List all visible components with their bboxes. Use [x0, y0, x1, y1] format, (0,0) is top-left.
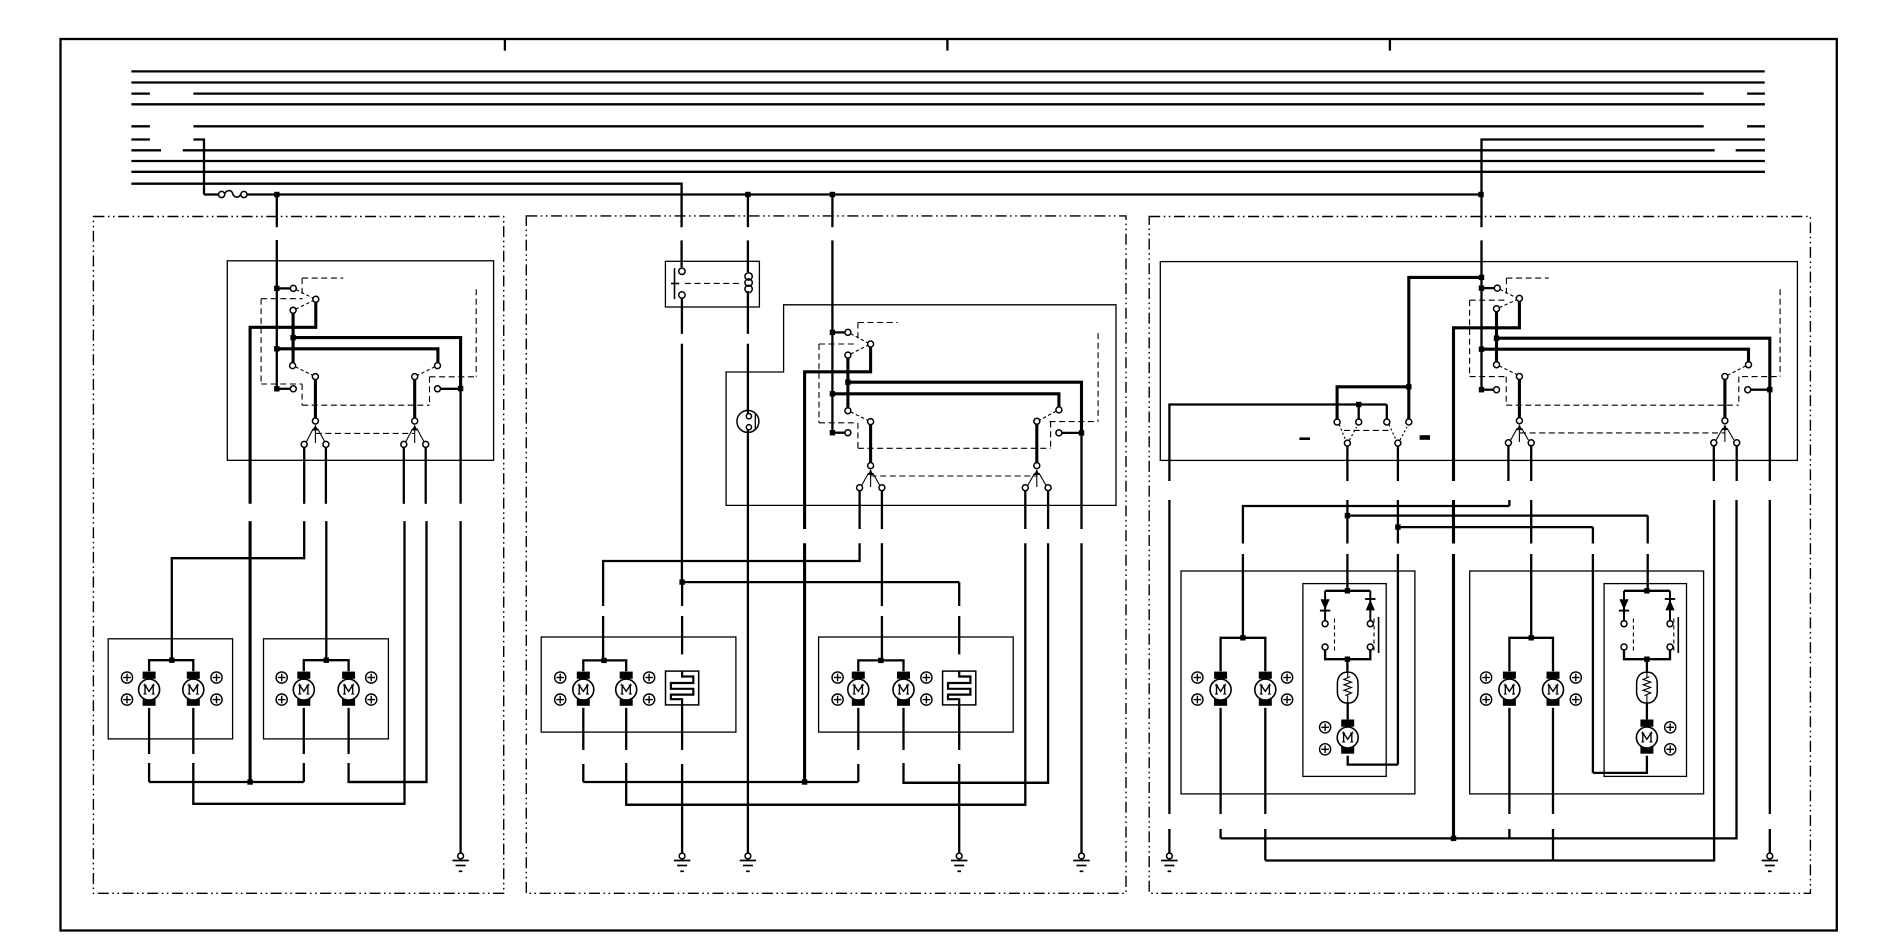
plus terminal — [1570, 672, 1581, 683]
diode1 connector dash b — [1373, 619, 1375, 652]
wire lock feed A4 — [1407, 389, 1410, 419]
contact C3r — [1494, 306, 1500, 312]
motor M7 — [1337, 720, 1358, 754]
wire M4a tail — [857, 764, 859, 782]
wire CB1 tail — [681, 764, 683, 853]
wire bus y126 — [1747, 125, 1765, 127]
lock arm A3-A6 — [1389, 425, 1396, 441]
wire right ground leg mid — [1769, 500, 1771, 814]
wire C15r out — [1736, 446, 1738, 481]
wire mid bottom link A — [583, 781, 858, 783]
contact C2 — [313, 296, 319, 302]
wire bus y183 to relay — [131, 184, 681, 228]
contact C11m — [1034, 463, 1040, 469]
wire H3 right leg 2 — [1592, 554, 1594, 773]
node L-ground-leg — [458, 386, 463, 391]
motor M6a — [1499, 672, 1520, 706]
wire bus y150 — [131, 149, 161, 151]
contact C6 — [290, 386, 296, 392]
wire relay coil feed — [747, 195, 749, 228]
node mid motor2 feed — [878, 658, 883, 663]
arrow mid left rocker — [868, 469, 873, 487]
arm C13m side — [873, 473, 880, 485]
wire C15 out lower — [349, 521, 427, 782]
wire left main feed — [276, 195, 278, 228]
wire relay contact out 2 — [681, 344, 683, 582]
switch arm C1m-C2m — [851, 334, 868, 343]
wire C14r out 2 — [1265, 500, 1714, 861]
lock dashed link — [1344, 429, 1389, 431]
plus terminal — [1481, 694, 1492, 705]
node L-main-1 — [274, 286, 279, 291]
plus terminal — [276, 672, 287, 683]
circuit breaker CB1 — [666, 671, 699, 705]
arrow right rocker — [412, 425, 417, 444]
node M-main-3 — [830, 430, 835, 435]
right doors dash-dot box — [1149, 217, 1810, 894]
wire bus y126 — [131, 125, 150, 127]
switch arm C1r-C2r — [1500, 289, 1517, 298]
wire C2m elbow long — [805, 347, 871, 529]
wire diode1 top — [1325, 590, 1370, 592]
plus terminal — [1320, 744, 1331, 755]
buzzer B1 — [737, 410, 759, 432]
arm C13r side — [1522, 428, 1529, 440]
wire buzzer to ground — [747, 432, 749, 853]
node feed-midswitch — [830, 192, 835, 197]
contact C3m — [845, 352, 851, 358]
wire H3 right leg — [1592, 527, 1594, 543]
wire mid ground leg lower — [1080, 543, 1082, 853]
plus terminal — [1282, 672, 1293, 683]
wire resistor1 feed2 — [681, 616, 683, 654]
middle doors dash-dot box — [526, 216, 1126, 893]
wire bus y171 — [131, 171, 1765, 173]
contact C10r — [1516, 418, 1522, 424]
circuit breaker CB2 — [943, 671, 976, 705]
wire motor2 Y — [304, 660, 349, 671]
wire C13 out lower — [325, 521, 327, 658]
contact C6m — [845, 430, 851, 436]
wire C12r out — [1507, 446, 1509, 481]
node M-main-1 — [830, 330, 835, 335]
motor M4b — [893, 672, 914, 706]
plus terminal — [921, 694, 932, 705]
switch arm C1-C2 — [296, 290, 313, 299]
left switch dashed outline — [261, 278, 476, 433]
switch arm C4r-C5r — [1499, 366, 1517, 375]
wire stub C9m — [1062, 432, 1082, 434]
left motor unit 1 box — [108, 639, 232, 739]
plus terminal — [121, 672, 132, 683]
wire A3 stub — [1386, 405, 1388, 420]
arm C14 side — [406, 429, 413, 442]
wire relay coil feed 2 — [747, 240, 749, 266]
motor M2b — [338, 672, 359, 706]
wire M2a tail — [303, 763, 305, 782]
node resistor branch — [679, 579, 684, 584]
lock arm A5 tip — [1350, 427, 1357, 440]
wire M4b down — [902, 708, 904, 750]
contact C4r — [1494, 362, 1500, 368]
wire mid bottom link C — [626, 804, 1025, 806]
wire C8m-C11m — [1035, 424, 1038, 462]
wire diode2 bottom — [1624, 650, 1670, 659]
node diode1 bottom — [1345, 657, 1350, 662]
wire C12m out tail — [602, 616, 604, 658]
wire r-motor2 Y — [1509, 638, 1553, 672]
node mid bottom A — [802, 779, 807, 784]
motor M2a — [293, 672, 314, 706]
contact C6r — [1494, 387, 1500, 393]
wire horiz to C7m — [832, 394, 1059, 407]
wire stub C9r — [1751, 389, 1770, 391]
plus terminal — [832, 694, 843, 705]
diode2 connector dash b — [1673, 619, 1675, 652]
plus terminal — [1282, 694, 1293, 705]
wire H1 — [1243, 506, 1510, 544]
wire C13r out 2 — [1530, 500, 1532, 544]
node R-main-2 — [1479, 347, 1484, 352]
motor M3b — [616, 672, 637, 706]
node L-main-3 — [274, 386, 279, 391]
wire horiz to mid ground leg — [848, 382, 1082, 433]
wire CB1 to ground — [681, 705, 683, 750]
wire M8 tail — [1593, 756, 1647, 773]
wire bus y82 — [131, 81, 1764, 83]
wire C13m out lower — [881, 543, 883, 606]
wire C5m-C10m — [869, 425, 872, 463]
contact C14r — [1711, 440, 1717, 446]
wire C15r out 2 — [1221, 500, 1737, 838]
contact C7 — [435, 363, 441, 369]
contact C12m — [857, 485, 863, 491]
wire bus y93 — [131, 92, 150, 94]
wire middle main vertical — [831, 240, 833, 432]
wire bus y93 — [193, 92, 1703, 94]
wire thermistor1 to M — [1347, 703, 1349, 719]
node L-main-2 — [274, 346, 279, 351]
node L-horiz1 — [290, 335, 295, 340]
wire M2a down — [303, 708, 305, 754]
contact C12 — [301, 441, 307, 447]
contact C9r — [1745, 387, 1751, 393]
plus terminal — [1570, 694, 1581, 705]
wire bottom link B — [349, 781, 427, 783]
diode unit1 top node — [1345, 588, 1350, 593]
middle switch dashed outline — [819, 323, 1098, 477]
contact C7m — [1056, 407, 1062, 413]
middle motor unit 2 box — [819, 637, 1014, 732]
node feed-relaycoil — [745, 192, 750, 197]
ground G-mid3 — [951, 853, 967, 871]
plus terminal — [366, 672, 377, 683]
plus terminal — [276, 694, 287, 705]
wire C2r long lower — [1452, 554, 1455, 838]
pin diode1 a — [1322, 621, 1328, 627]
wire C15m out lower — [904, 543, 1049, 783]
switch arm C3-C2 — [296, 301, 313, 310]
plus terminal — [1665, 722, 1676, 733]
wire C3m-C4m — [846, 358, 849, 408]
plus terminal — [644, 694, 655, 705]
wire C12m out lower — [603, 543, 860, 606]
wire C2r long mid — [1452, 500, 1455, 544]
contact C7r — [1746, 362, 1752, 368]
wire M5b down — [1264, 708, 1266, 814]
contact C2m — [868, 341, 874, 347]
right diode unit 2 box — [1604, 584, 1686, 777]
pin diode1 c — [1322, 644, 1328, 650]
left motor unit 2 box — [264, 639, 389, 739]
wire relay coil out — [747, 297, 749, 334]
wire horiz to C7 — [277, 349, 438, 363]
node R-horiz1 — [1494, 336, 1499, 341]
switch arm C3m-C2m — [851, 345, 868, 354]
wire C15 out — [425, 447, 427, 503]
arrow right-box right rocker — [1722, 424, 1727, 442]
wire A6 cont — [1397, 527, 1399, 543]
wire middle main feed — [831, 195, 833, 228]
wire C13 out — [325, 447, 327, 503]
wire M6a tail — [1508, 829, 1510, 838]
wire horiz to ground leg — [293, 338, 461, 389]
wire resistor branch — [682, 581, 959, 583]
wire horiz to C7r — [1482, 349, 1749, 362]
node diode2 bottom — [1644, 657, 1649, 662]
wire relay contact feed — [680, 240, 682, 267]
wire C13r out 3 — [1530, 554, 1532, 635]
contact A4 — [1406, 419, 1412, 425]
node HA long wire — [1451, 836, 1456, 841]
lock symbol unlock — [1299, 437, 1310, 440]
wire right ground leg tail — [1769, 829, 1771, 853]
contact A3 — [1384, 419, 1390, 425]
ground G-mid2 — [740, 853, 756, 871]
node feed-left — [274, 192, 279, 197]
wire M7 tail — [1348, 756, 1398, 765]
tick mark 3 — [1389, 39, 1391, 51]
wire lock ground mid — [1168, 500, 1170, 814]
arm C12m side — [862, 473, 869, 485]
thermistor TH1 — [1337, 672, 1358, 703]
wire to thermistor2 — [1646, 659, 1648, 672]
wire bus y139 right segment — [1482, 140, 1765, 195]
wire A6 cont 2 — [1397, 554, 1399, 765]
wire M5a down — [1219, 708, 1221, 814]
node motor2 feed — [324, 658, 329, 663]
lock arm A6 tip — [1400, 427, 1407, 440]
lock symbol lock — [1420, 435, 1430, 440]
switch arm C7-C8 — [417, 367, 434, 376]
wire bus y150 — [1736, 149, 1765, 151]
wire C12 out lower — [172, 521, 304, 658]
wire stub C9 — [441, 388, 461, 390]
contact C1m — [845, 329, 851, 335]
wire M3b down — [625, 708, 627, 750]
wire A5 out 2 — [1346, 500, 1348, 513]
wire bus y93 — [1747, 92, 1765, 94]
wire C14 out — [403, 447, 405, 503]
ground G-right2 — [1762, 853, 1778, 871]
plus terminal — [121, 694, 132, 705]
wire ground leg lower — [459, 521, 461, 853]
motor M5b — [1255, 672, 1276, 706]
node H3 left — [1395, 524, 1400, 529]
left door dash-dot box — [93, 217, 503, 894]
contact C13 — [323, 441, 329, 447]
node mid motor1 feed — [601, 658, 606, 663]
wire stub C6 — [279, 388, 290, 390]
wire C12r out 2 — [1508, 500, 1510, 506]
wire feed y194 — [247, 193, 1480, 195]
plus terminal — [555, 694, 566, 705]
diode D4 — [1665, 591, 1675, 621]
wire M1b down — [192, 708, 194, 754]
wire C8-C11 — [413, 380, 416, 418]
node lock A2 — [1356, 402, 1361, 407]
wire stub C6m — [835, 432, 845, 434]
plus terminal — [1481, 672, 1492, 683]
wire A6 out 2 — [1397, 500, 1399, 525]
wire stub to C1r — [1482, 287, 1495, 289]
contact C5r — [1516, 374, 1522, 380]
contact C2r — [1516, 295, 1522, 301]
lock arm A1-A5 — [1339, 425, 1346, 441]
wire M6a down — [1508, 708, 1510, 814]
node M-main-2 — [830, 391, 835, 396]
contact C11 — [412, 418, 418, 424]
wire bus y139 left stub — [131, 138, 150, 140]
contact C9m — [1056, 430, 1062, 436]
wire lock ground horiz — [1169, 405, 1386, 482]
wire C14r out — [1713, 446, 1715, 481]
diode unit2 top node — [1644, 588, 1649, 593]
wire bus y161 — [131, 160, 1765, 162]
plus terminal — [1665, 744, 1676, 755]
wire resistor1 feed — [681, 582, 683, 606]
motor M1b — [183, 672, 204, 706]
contact C15m — [1045, 485, 1051, 491]
ground G-right1 — [1161, 853, 1177, 871]
arm C15m side — [1039, 473, 1046, 485]
wire A2 stub — [1358, 405, 1360, 420]
wire diode2 top — [1624, 590, 1670, 592]
right motor unit 1 box — [1181, 571, 1415, 794]
diode2 connector bar — [1677, 617, 1679, 653]
wire bus y139 to fuse — [193, 140, 204, 195]
wire C2 elbow long — [250, 302, 316, 504]
diode1 connector dash a — [1334, 619, 1336, 652]
wire CB2 tail — [958, 764, 960, 853]
wire bus y150 — [183, 149, 1715, 151]
middle motor unit 1 box — [541, 637, 736, 732]
wire lock feed — [1409, 277, 1482, 384]
wire mid bottom link B — [904, 782, 1049, 784]
wire A5 cont — [1346, 516, 1348, 544]
motor M6b — [1543, 672, 1564, 706]
diode2 connector dash a — [1632, 619, 1634, 652]
contact C1r — [1494, 285, 1500, 291]
wire left main vertical — [276, 240, 278, 389]
wire C5r-C10r — [1518, 380, 1521, 418]
right switch dashed outline — [1470, 278, 1781, 433]
wire C5-C10 — [314, 380, 317, 418]
wire mid motor2 Y — [858, 660, 903, 671]
wire lock feed A1 — [1337, 387, 1409, 419]
contact C3 — [290, 307, 296, 313]
relay R1 — [665, 261, 759, 307]
plus terminal — [1320, 722, 1331, 733]
wire diode1 bottom — [1325, 650, 1370, 659]
wire relay coil out 2 — [747, 344, 749, 411]
wire C2 long lower — [249, 521, 252, 782]
wire ground leg — [459, 389, 461, 504]
contact A5 — [1344, 440, 1350, 446]
ground G-mid1 — [674, 853, 690, 871]
middle switch box outline — [726, 305, 1116, 506]
wire stub to C1 — [277, 287, 291, 289]
wire A6 out — [1397, 446, 1399, 481]
wire M6b tail — [1552, 829, 1554, 861]
node M-horiz1 — [845, 380, 850, 385]
contact C10m — [868, 463, 874, 469]
switch arm C7r-C8r — [1728, 366, 1746, 375]
wire horiz to right ground leg — [1497, 338, 1770, 387]
wire C13r out — [1530, 446, 1532, 481]
diode D3 — [1619, 591, 1629, 621]
wire stub C6r — [1484, 389, 1493, 391]
wire M5a tail — [1219, 829, 1221, 838]
contact C1 — [290, 285, 296, 291]
contact A6 — [1395, 440, 1401, 446]
contact C11r — [1722, 418, 1728, 424]
plus terminal — [211, 672, 222, 683]
plus terminal — [921, 672, 932, 683]
contact C15 — [423, 441, 429, 447]
wire H1 left leg — [1242, 554, 1244, 635]
contact C8 — [412, 374, 418, 380]
wire stub to C1m — [832, 331, 845, 333]
wire bus y126 — [193, 125, 1703, 127]
wire M1a down — [148, 708, 150, 754]
node R-main-1 — [1479, 285, 1484, 290]
arm C14m side — [1028, 473, 1035, 485]
plus terminal — [1192, 672, 1203, 683]
node H2 left — [1345, 513, 1350, 518]
contact C13r — [1528, 440, 1534, 446]
wire mid motor1 stub — [602, 658, 605, 661]
contact C4m — [845, 408, 851, 414]
fuse F1 — [204, 191, 247, 198]
wire bottom link C — [193, 803, 404, 805]
arm C12r side — [1511, 428, 1518, 440]
contact C4 — [290, 363, 296, 369]
node lock feed — [1406, 384, 1411, 389]
arrow right-box left rocker — [1517, 424, 1522, 442]
wire M2b down — [347, 708, 349, 754]
diode D1 — [1320, 591, 1330, 621]
wire A5 cont 2 — [1346, 554, 1348, 588]
ground G1 — [452, 853, 468, 871]
contact C9 — [435, 386, 441, 392]
left master switch box — [227, 261, 493, 461]
contact A2 — [1356, 419, 1362, 425]
wire right main vertical — [1480, 240, 1482, 389]
node R-main-3 — [1479, 387, 1484, 392]
ground G-mid4 — [1073, 853, 1089, 871]
arrow mid right rocker — [1034, 469, 1039, 487]
